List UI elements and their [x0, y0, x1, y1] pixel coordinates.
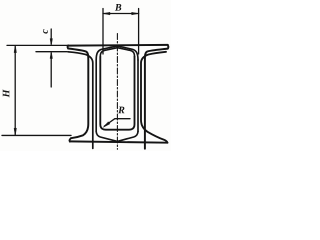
wire bottom extension line y=135.4 — [2, 134, 71, 136]
wire third contour right lower join to bottom center — [117, 132, 138, 142]
wire top extension line y=45.4 (c top / H top) — [7, 44, 68, 46]
node outer contour top flange — [68, 44, 168, 47]
wire cavity left top arch — [100, 48, 117, 57]
wire second contour right (B2') — [141, 52, 167, 143]
wire B dimension line with arrows — [103, 13, 139, 15]
wire cavity right top arch — [117, 48, 134, 57]
wire top-right flange underside to web (contour A') — [145, 49, 168, 149]
wire B left extension line — [102, 9, 104, 55]
node bottom-left flange tip nose — [70, 138, 71, 141]
node c lower arrow — [50, 53, 52, 87]
node inner cavity rounded contour (D) — [100, 57, 134, 130]
node top-left flange tip nose — [67, 45, 70, 48]
node label H — [3, 89, 10, 97]
node centerline axis dash-dot — [116, 34, 118, 150]
node c upper arrow — [50, 29, 52, 44]
wire third contour right upper arch (C') — [137, 60, 139, 132]
wire second contour left (B2) — [68, 52, 93, 149]
wire B right extension line — [138, 9, 140, 55]
node top-right flange tip nose — [167, 45, 170, 48]
node label c — [43, 29, 48, 33]
wire c bottom extension line — [36, 51, 67, 53]
wire third contour left upper arch (C) — [95, 60, 97, 132]
wire third contour left lower join to bottom center — [96, 132, 117, 142]
node label B — [115, 4, 121, 11]
wire H dimension line — [14, 47, 16, 135]
wire top-left flange underside to web (contour A) — [68, 49, 88, 139]
node label R with leader arrow — [118, 107, 124, 114]
node outer contour bottom face — [70, 141, 167, 142]
